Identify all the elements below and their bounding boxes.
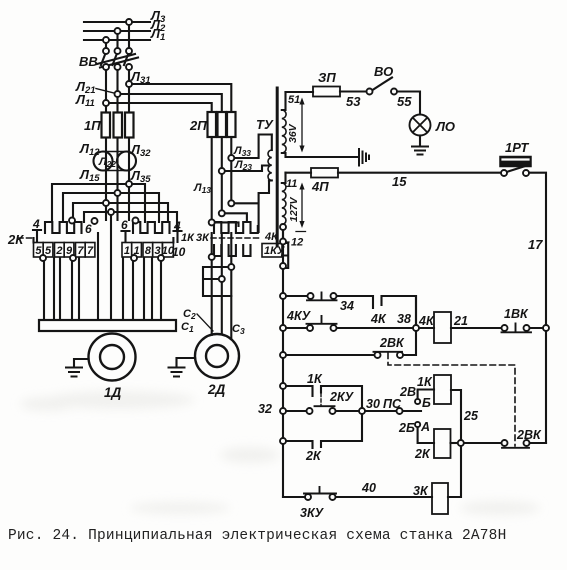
- svg-text:4П: 4П: [311, 179, 329, 194]
- svg-text:Л33: Л33: [233, 145, 251, 158]
- svg-text:9: 9: [66, 245, 73, 257]
- svg-text:1ВК: 1ВК: [504, 307, 529, 321]
- svg-text:8: 8: [145, 245, 152, 257]
- svg-text:10: 10: [172, 245, 186, 259]
- svg-text:4К: 4К: [418, 314, 435, 328]
- svg-text:1К: 1К: [417, 375, 433, 389]
- svg-text:7: 7: [77, 245, 84, 257]
- svg-text:36V: 36V: [287, 123, 299, 143]
- svg-text:4: 4: [32, 217, 40, 231]
- svg-text:2ВК: 2ВК: [516, 428, 542, 442]
- svg-text:40: 40: [361, 481, 376, 495]
- svg-text:5: 5: [45, 245, 52, 257]
- svg-text:3К: 3К: [196, 232, 210, 244]
- svg-text:53: 53: [346, 94, 361, 109]
- svg-text:1К: 1К: [181, 232, 195, 244]
- svg-text:2К: 2К: [7, 232, 24, 247]
- svg-text:Л31: Л31: [130, 69, 151, 86]
- svg-text:ПС: ПС: [383, 397, 402, 411]
- svg-text:2В: 2В: [399, 385, 416, 399]
- svg-text:38: 38: [397, 312, 411, 326]
- svg-text:2: 2: [55, 245, 62, 257]
- svg-text:30: 30: [366, 397, 380, 411]
- svg-text:6: 6: [85, 222, 92, 236]
- svg-text:ВВ: ВВ: [79, 54, 98, 69]
- svg-text:ЗП: ЗП: [318, 70, 336, 85]
- svg-text:Б: Б: [422, 396, 431, 410]
- svg-text:51: 51: [288, 94, 300, 106]
- svg-text:ТУ: ТУ: [256, 117, 274, 132]
- svg-text:Л23: Л23: [234, 159, 252, 172]
- svg-text:С1: С1: [181, 321, 194, 334]
- svg-text:1: 1: [124, 245, 130, 257]
- svg-text:2Д: 2Д: [207, 382, 226, 397]
- svg-text:1РТ: 1РТ: [505, 140, 529, 155]
- svg-text:4КУ: 4КУ: [286, 309, 312, 323]
- svg-text:11: 11: [286, 178, 297, 190]
- svg-text:4К: 4К: [264, 231, 279, 243]
- svg-text:Л35: Л35: [130, 168, 151, 185]
- svg-text:Л32: Л32: [130, 142, 151, 159]
- svg-text:127V: 127V: [288, 196, 300, 222]
- svg-text:2П: 2П: [189, 118, 207, 133]
- svg-text:3: 3: [155, 245, 161, 257]
- svg-text:С2: С2: [183, 308, 196, 321]
- svg-text:1Д: 1Д: [104, 385, 122, 400]
- svg-text:1К: 1К: [307, 372, 323, 386]
- svg-text:4: 4: [173, 219, 181, 233]
- svg-text:Л22: Л22: [98, 156, 116, 169]
- svg-text:5: 5: [35, 245, 42, 257]
- svg-text:7: 7: [87, 245, 94, 257]
- svg-text:2К: 2К: [305, 449, 322, 463]
- svg-text:1КУ: 1КУ: [264, 245, 286, 257]
- svg-text:А: А: [420, 420, 430, 434]
- svg-text:32: 32: [258, 402, 272, 416]
- svg-text:2К: 2К: [414, 447, 431, 461]
- svg-text:2ВК: 2ВК: [379, 336, 405, 350]
- svg-text:1П: 1П: [84, 118, 101, 133]
- svg-text:1: 1: [134, 245, 140, 257]
- svg-text:10: 10: [162, 245, 175, 257]
- svg-text:2Б: 2Б: [398, 421, 415, 435]
- svg-text:15: 15: [392, 174, 407, 189]
- svg-text:34: 34: [340, 299, 354, 313]
- svg-text:3К: 3К: [413, 484, 429, 498]
- svg-text:21: 21: [453, 314, 468, 328]
- svg-text:ЛО: ЛО: [435, 119, 455, 134]
- svg-text:4К: 4К: [370, 312, 387, 326]
- svg-text:3КУ: 3КУ: [300, 506, 325, 520]
- svg-text:Л13: Л13: [193, 182, 211, 195]
- svg-text:Л12: Л12: [79, 141, 100, 158]
- svg-text:6: 6: [121, 218, 128, 232]
- svg-text:55: 55: [397, 94, 412, 109]
- svg-text:2КУ: 2КУ: [329, 390, 355, 404]
- svg-text:С3: С3: [232, 323, 245, 336]
- svg-text:25: 25: [463, 409, 479, 423]
- svg-text:12: 12: [291, 237, 303, 249]
- svg-text:ВО: ВО: [374, 64, 393, 79]
- svg-text:17: 17: [528, 237, 543, 252]
